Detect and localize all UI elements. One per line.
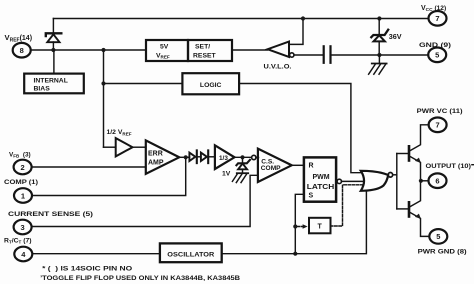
svg-text:T: T [318, 223, 323, 230]
node junction on Vcc rail [301, 16, 305, 20]
svg-text:1: 1 [21, 191, 25, 200]
diode D2 [189, 150, 196, 163]
wire [197, 156, 201, 158]
svg-text:LOGIC: LOGIC [200, 82, 222, 89]
buffer amp 1/2 VREF [116, 138, 133, 156]
SET/RESET box [188, 40, 232, 61]
ground symbol at 36V zener [369, 55, 387, 74]
op-amp C.S. COMP [258, 149, 292, 182]
wire base rail [396, 154, 398, 209]
svg-text:SET/: SET/ [195, 44, 210, 51]
wire to INTERNAL BIAS [53, 50, 55, 74]
pin 7 PWR VC [429, 118, 447, 133]
transistor Q2 lower NPN [409, 181, 429, 236]
transistor Q1 upper NPN [409, 125, 429, 181]
ground symbol at 1V clamp [232, 173, 248, 182]
amp 1/3 gain [215, 145, 235, 169]
wire latch S input to oscillator [295, 194, 304, 253]
svg-text:6: 6 [435, 177, 439, 186]
svg-text:1/3: 1/3 [219, 155, 228, 162]
svg-text:5: 5 [435, 51, 439, 60]
node junction VREF rail to logic branch [101, 48, 105, 52]
wire [208, 156, 215, 158]
node junction S line / toggle tap [293, 224, 297, 228]
svg-text:OSCILLATOR: OSCILLATOR [167, 251, 214, 258]
svg-text:COMP (1): COMP (1) [4, 179, 38, 186]
svg-text:PWR VC (11): PWR VC (11) [417, 108, 463, 115]
pin 7 VCC [429, 11, 447, 26]
svg-text:AMP: AMP [148, 159, 164, 166]
node junction Vcc rail at zener [377, 16, 381, 20]
svg-text:PWM: PWM [313, 174, 330, 181]
wire toggle tap dashed into T [298, 226, 303, 228]
svg-text:36V: 36V [389, 32, 402, 41]
wire branch down to 1/2 VREF buffer [103, 50, 105, 147]
svg-text:8: 8 [20, 46, 24, 55]
wire error amp output [179, 156, 189, 158]
svg-text:INTERNAL: INTERNAL [34, 77, 68, 84]
wire COMP feedback [32, 157, 186, 195]
wire capacitor to GND pin [331, 54, 429, 56]
node junction on VREF rail at diode [51, 48, 55, 52]
wire top Vcc rail [53, 18, 428, 20]
wire 1/3 amp to CS comparator [235, 156, 252, 158]
wire SET/RESET to UVLO tip [232, 49, 268, 51]
svg-text:BIAS: BIAS [34, 86, 51, 93]
svg-text:VFB (3): VFB (3) [9, 152, 31, 159]
wire current sense input [32, 175, 258, 226]
wire VFB input [32, 166, 146, 168]
svg-text:7: 7 [436, 121, 440, 130]
wire to LOGIC box [104, 83, 183, 85]
pin 6 OUTPUT [429, 173, 447, 188]
node junction S line on oscillator wire [293, 252, 297, 256]
op-amp ERR AMP [146, 140, 179, 173]
pin 8 VREF [13, 43, 31, 58]
PWM LATCH box U3 [304, 157, 336, 201]
NOR output bubble [388, 173, 393, 178]
diode D3 [201, 150, 208, 163]
wire VREF rail from pin 8 to 5V VREF box [31, 49, 146, 51]
pin 5 PWR GND [429, 229, 447, 244]
svg-text:’TOGGLE FLIP FLOP USED ONLY IN: ’TOGGLE FLIP FLOP USED ONLY IN KA3844B, … [40, 275, 240, 282]
pin 2 VFB [14, 160, 32, 175]
svg-text:* ( ) IS 14SOIC PIN NO: * ( ) IS 14SOIC PIN NO [42, 265, 132, 272]
wire bubble to comparator [256, 157, 259, 159]
internal bias box [24, 74, 84, 94]
svg-text:LATCH: LATCH [307, 184, 335, 191]
svg-text:3: 3 [21, 223, 25, 232]
svg-text:COMP: COMP [261, 165, 281, 172]
UVLO output bubble [290, 53, 294, 57]
svg-text:OUTPUT (10): OUTPUT (10) [426, 163, 472, 170]
5V VREF box [146, 40, 188, 61]
wire NOR output to transistor bases [393, 174, 397, 176]
svg-text:PWR GND (8): PWR GND (8) [418, 248, 467, 255]
wire comparator to latch R [292, 164, 304, 166]
wire LOGIC to NOR gate top input [239, 84, 362, 173]
wire UVLO output to capacitor [294, 54, 324, 56]
OSCILLATOR box [160, 243, 222, 262]
pin 1 COMP [14, 188, 32, 203]
wire Vcc sense into UVLO [289, 19, 303, 45]
pin 3 CURRENT SENSE [14, 220, 32, 235]
pin 5 GND [428, 48, 446, 63]
wire tick at right edge [471, 164, 474, 165]
svg-text:5V: 5V [160, 44, 169, 51]
svg-text:2: 2 [21, 163, 25, 172]
op-amp U.V.L.O. comparator [268, 42, 289, 58]
svg-text:S: S [309, 192, 314, 199]
svg-text:CURRENT SENSE (5): CURRENT SENSE (5) [8, 211, 93, 218]
LOGIC box [182, 73, 239, 94]
wire latch output to NOR input [342, 180, 365, 182]
svg-text:GND (9): GND (9) [419, 42, 451, 49]
svg-text:U.V.L.O.: U.V.L.O. [264, 64, 292, 71]
latch output bubble [337, 179, 341, 183]
wire buffer to error amp [133, 146, 146, 148]
gate NOR U4 [361, 171, 388, 191]
node junction to LOGIC [101, 81, 105, 85]
node junction at 1V clamp [240, 155, 244, 159]
pin 4 RT/CT [14, 247, 32, 262]
svg-text:R: R [309, 163, 314, 170]
wire pin 4 to oscillator [32, 253, 160, 255]
T flip-flop box [309, 218, 331, 234]
wire T output dashed to NOR input [331, 185, 364, 226]
node junction error amp output [184, 155, 188, 159]
wire buffer input [104, 146, 116, 148]
capacitor C1 [324, 46, 331, 63]
zener diode 1V clamp [236, 157, 250, 172]
diode D1 (VREF to VCC rail) [46, 19, 62, 51]
zener diode 36V [371, 19, 388, 56]
svg-text:5: 5 [436, 232, 440, 241]
wire output node to pin 6 [421, 180, 429, 182]
svg-text:RESET: RESET [193, 53, 217, 60]
op-amp C.S. COMP inverting input bubble [252, 155, 256, 159]
wire oscillator output to NOR gate [222, 189, 367, 254]
svg-text:1V: 1V [222, 171, 231, 178]
svg-text:RT/CT (7): RT/CT (7) [4, 238, 32, 245]
svg-text:ERR: ERR [148, 150, 163, 157]
node junction GND wire [377, 53, 381, 57]
svg-text:7: 7 [435, 14, 439, 23]
node junction output [419, 179, 423, 183]
